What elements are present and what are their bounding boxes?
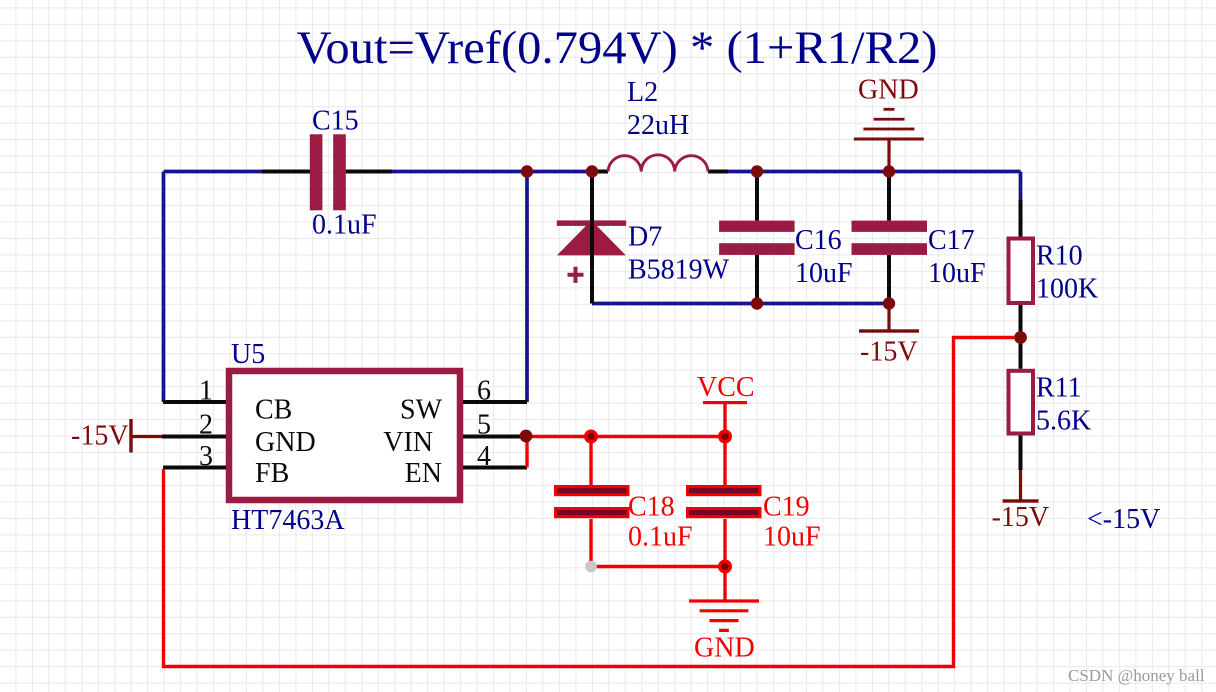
junction VIN pin node — [520, 430, 533, 443]
junction C18 top (red ring) — [584, 430, 598, 444]
svg-text:CB: CB — [255, 395, 292, 426]
resistor R10 — [1009, 200, 1099, 338]
wire left vertical to pin 1 — [162, 172, 166, 403]
wire VIN supply horizontal (red) — [527, 435, 725, 438]
svg-text:GND: GND — [858, 75, 919, 106]
capacitor C17 — [852, 172, 986, 304]
svg-text:5.6K: 5.6K — [1036, 406, 1091, 437]
capacitor C19 — [688, 437, 821, 567]
pin 6 — [463, 376, 527, 407]
svg-text:0.1uF: 0.1uF — [312, 210, 377, 241]
svg-text:100K: 100K — [1036, 274, 1098, 305]
svg-text:-15V: -15V — [992, 502, 1050, 533]
inductor L2 — [592, 77, 728, 172]
wire C18 to C19 bottom (red) — [591, 565, 725, 568]
power -15V at pin 2 — [71, 419, 162, 453]
wire SW vertical to pin 6 — [525, 172, 529, 403]
svg-text:<-15V: <-15V — [1087, 504, 1160, 535]
svg-text:5: 5 — [477, 410, 491, 441]
pin 3 — [163, 441, 226, 472]
junction C16 top — [751, 165, 763, 177]
svg-text:-15V: -15V — [860, 337, 918, 368]
svg-text:SW: SW — [400, 395, 443, 426]
svg-text:6: 6 — [477, 376, 491, 407]
svg-text:VCC: VCC — [697, 372, 755, 403]
svg-text:B5819W: B5819W — [628, 255, 730, 286]
junction top SW node — [521, 165, 533, 177]
junction C18 bottom (gray dot) — [585, 561, 597, 573]
power GND bottom symbol — [689, 567, 759, 664]
junction C16 bottom — [751, 297, 763, 309]
svg-text:L2: L2 — [627, 77, 658, 108]
svg-text:0.1uF: 0.1uF — [628, 522, 693, 553]
wire top horizontal net — [164, 170, 1021, 174]
svg-text:Vout=Vref(0.794V) * (1+R1/R2): Vout=Vref(0.794V) * (1+R1/R2) — [297, 22, 938, 74]
svg-text:10uF: 10uF — [763, 522, 821, 553]
power VCC symbol — [697, 372, 755, 437]
svg-text:C17: C17 — [928, 225, 975, 256]
svg-text:2: 2 — [199, 410, 213, 441]
junction R10/R11 node — [1014, 331, 1027, 344]
svg-text:3: 3 — [199, 441, 213, 472]
resistor R11 — [1009, 338, 1092, 471]
svg-text:GND: GND — [255, 427, 316, 458]
power -15V below R11 — [992, 470, 1050, 533]
op IC U5 HT7463A body — [229, 339, 460, 536]
junction VCC node (red ring) — [718, 430, 732, 444]
svg-text:1: 1 — [199, 376, 213, 407]
svg-text:10uF: 10uF — [928, 258, 986, 289]
pin 5 — [463, 410, 525, 441]
svg-text:10uF: 10uF — [795, 258, 853, 289]
wire FB feedback net (red) — [164, 338, 1015, 667]
pin 4 — [463, 441, 527, 472]
wire right vertical to R10 — [1019, 172, 1023, 201]
junction C17 bottom — [883, 297, 895, 309]
capacitor C15 — [262, 106, 392, 241]
svg-text:R11: R11 — [1036, 373, 1082, 404]
power -15V below C17 — [859, 304, 919, 368]
power GND top symbol — [854, 75, 924, 172]
svg-text:FB: FB — [255, 458, 289, 489]
junction C17 top — [883, 165, 895, 177]
capacitor C18 — [556, 437, 693, 567]
capacitor C16 — [719, 172, 852, 304]
svg-text:C15: C15 — [312, 106, 359, 137]
svg-text:GND: GND — [694, 633, 755, 664]
wire VIN/EN junction to EN pin (red) — [525, 437, 528, 468]
svg-text:22uH: 22uH — [627, 110, 689, 141]
diode D7 B5819W — [557, 172, 730, 304]
wire lower output horizontal — [592, 302, 889, 306]
pin 1 — [163, 376, 226, 407]
svg-text:R10: R10 — [1036, 241, 1083, 272]
svg-text:EN: EN — [405, 458, 442, 489]
svg-text:D7: D7 — [628, 222, 662, 253]
svg-text:CSDN @honey ball: CSDN @honey ball — [1068, 666, 1205, 685]
svg-text:4: 4 — [477, 441, 491, 472]
svg-text:C16: C16 — [795, 225, 842, 256]
junction C19 bottom (red ring) — [718, 560, 732, 574]
svg-text:VIN: VIN — [383, 427, 433, 458]
svg-text:HT7463A: HT7463A — [231, 505, 345, 536]
pin 2 — [162, 410, 226, 441]
junction diode node — [586, 165, 598, 177]
svg-text:U5: U5 — [231, 339, 265, 370]
svg-text:C19: C19 — [763, 492, 810, 523]
svg-text:C18: C18 — [628, 492, 675, 523]
svg-text:-15V: -15V — [71, 421, 129, 452]
